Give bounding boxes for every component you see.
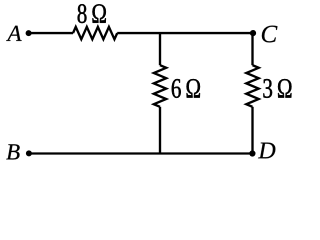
label A (6, 26, 21, 41)
node B terminal dot (26, 150, 32, 156)
node C terminal dot (250, 30, 256, 36)
value 8 ohm (78, 4, 106, 23)
label D (258, 143, 275, 159)
wire resistor 6 ohm to bottom wire (159, 107, 161, 155)
wire resistor R1 to node C (117, 32, 253, 34)
node A terminal dot (26, 30, 32, 36)
wire B to D (bottom) (29, 152, 253, 154)
label C (262, 26, 278, 43)
wire node C to resistor 3 ohm (251, 33, 253, 65)
resistor 3 ohm (246, 65, 258, 107)
value 3 ohm (263, 79, 291, 98)
resistor 6 ohm (154, 65, 166, 107)
resistor 8 ohm (73, 27, 117, 39)
wire resistor 3 ohm to node D (251, 107, 253, 154)
node D terminal dot (249, 150, 255, 156)
wire top junction to resistor 6 ohm (159, 32, 161, 65)
wire A to resistor R1 (29, 32, 73, 34)
label B (6, 144, 19, 159)
value 6 ohm (172, 79, 200, 98)
